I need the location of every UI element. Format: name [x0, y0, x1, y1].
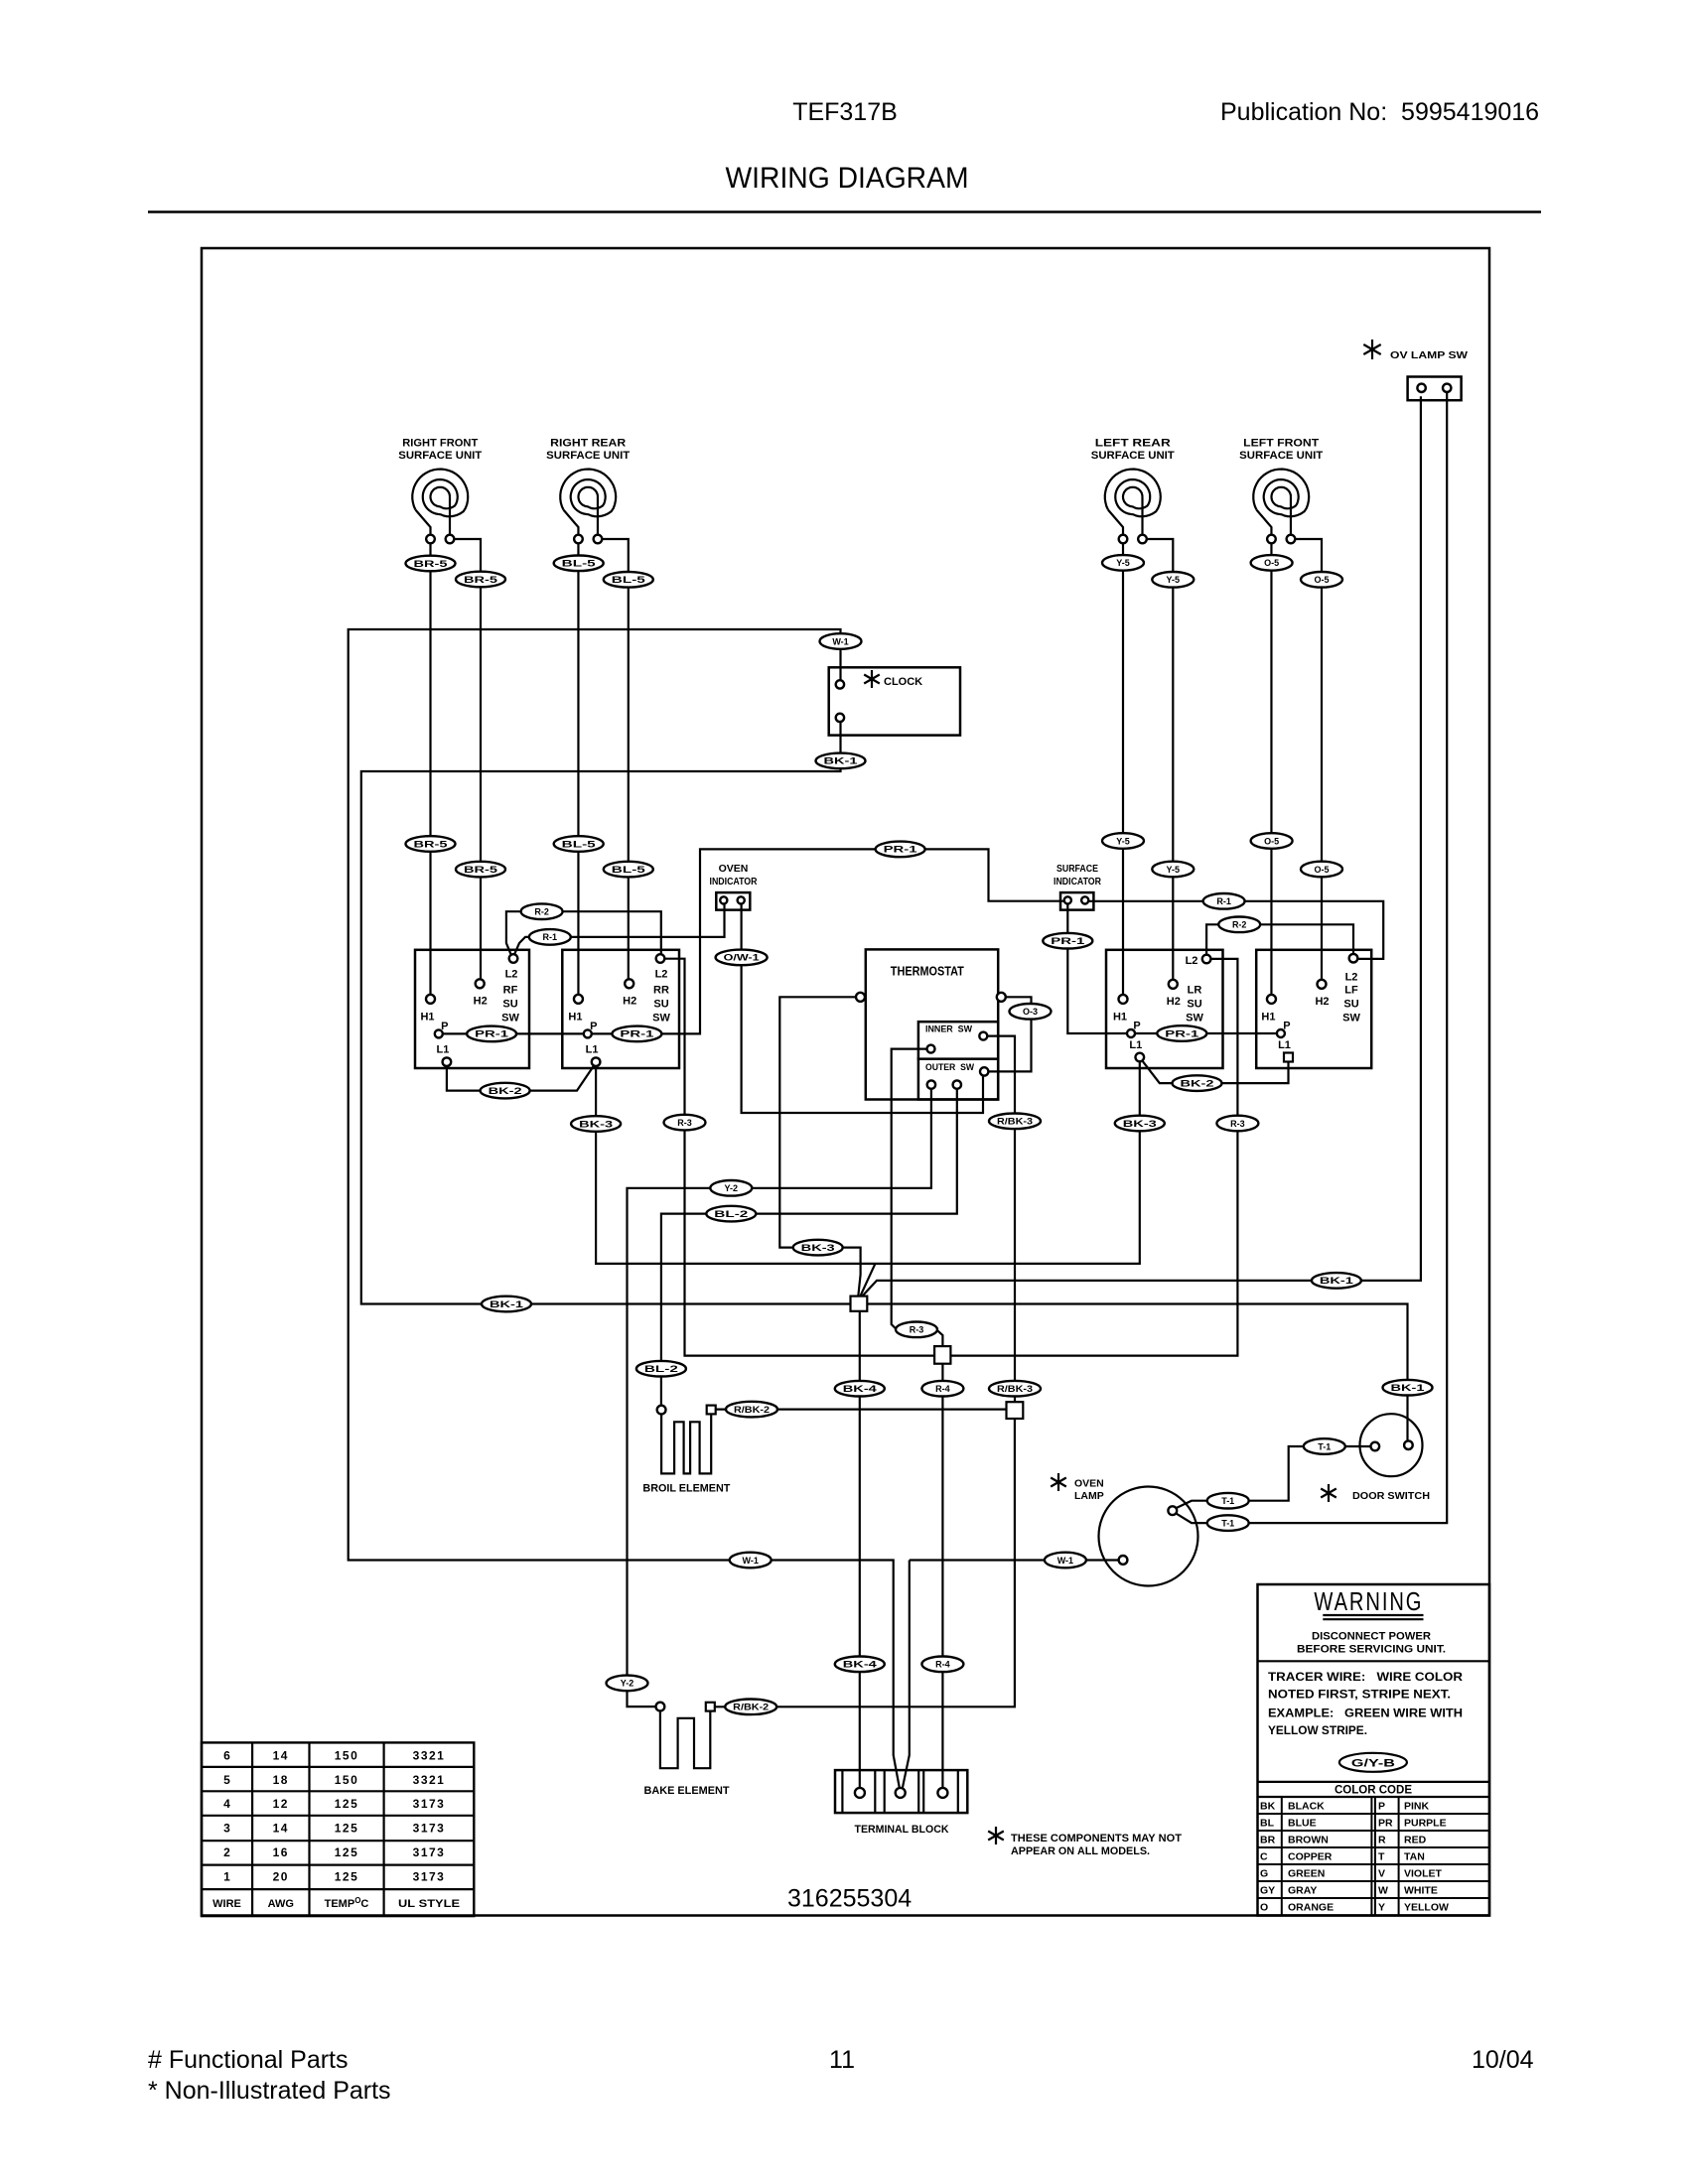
svg-text:LEFT FRONT: LEFT FRONT: [1243, 438, 1319, 450]
wire label O-5: [1251, 555, 1293, 571]
footer date 10/04: [1472, 2046, 1534, 2074]
svg-text:H1: H1: [1261, 1011, 1275, 1023]
svg-text:BL-5: BL-5: [562, 839, 596, 849]
svg-text:BK-1: BK-1: [824, 756, 858, 766]
wire R/BK-3 inner sw to junction: [987, 1036, 1015, 1403]
svg-text:COLOR CODE: COLOR CODE: [1335, 1783, 1412, 1797]
svg-text:2: 2: [223, 1845, 230, 1859]
oven lamp terminals: [1119, 1506, 1178, 1565]
svg-text:COPPER: COPPER: [1288, 1851, 1333, 1863]
wire Y-5 H2 LR: [1147, 539, 1173, 980]
svg-text:YELLOW: YELLOW: [1404, 1902, 1449, 1914]
svg-text:BK-3: BK-3: [801, 1243, 835, 1253]
warning text disconnect: [1297, 1631, 1446, 1656]
wire W-1 lamp feed: [903, 1561, 1119, 1789]
wire label PR-1: [467, 1026, 516, 1042]
bake element: [656, 1703, 715, 1769]
svg-text:GY: GY: [1260, 1885, 1275, 1897]
wire label BK-1: [1383, 1380, 1433, 1396]
note components: [1011, 1833, 1182, 1857]
wire label BK-3: [1115, 1116, 1165, 1132]
footer functional parts: [148, 2046, 349, 2074]
wire label O/W-1: [716, 950, 768, 966]
junction square 3: [1007, 1402, 1024, 1419]
wire PR-1 right bus: [1067, 904, 1276, 1033]
thermostat box: [866, 949, 998, 1099]
svg-text:R-3: R-3: [677, 1118, 692, 1128]
warning underline: [1323, 1615, 1423, 1619]
svg-text:R-1: R-1: [543, 932, 558, 942]
svg-text:T: T: [1378, 1851, 1385, 1863]
svg-text:APPEAR ON ALL MODELS.: APPEAR ON ALL MODELS.: [1011, 1845, 1150, 1857]
wire BK-2 LR L1 to LF L1: [1143, 1061, 1289, 1083]
label OVEN LAMP: [1074, 1478, 1104, 1503]
wire R/BK-2 broil to junction: [715, 1408, 1007, 1410]
junction square 2: [934, 1346, 950, 1364]
svg-text:Y: Y: [1378, 1902, 1385, 1914]
label DOOR SWITCH: [1352, 1491, 1430, 1502]
svg-text:SU: SU: [502, 999, 517, 1011]
asterisk OV LAMP SW: [1363, 340, 1380, 359]
wire T-1 lamp to ov lamp switch: [1177, 392, 1448, 1523]
svg-text:H2: H2: [1315, 996, 1329, 1008]
svg-text:R-4: R-4: [935, 1384, 950, 1394]
svg-text:ORANGE: ORANGE: [1288, 1902, 1334, 1914]
wire T-1 lamp to door switch: [1177, 1446, 1371, 1508]
svg-text:W-1: W-1: [743, 1556, 759, 1566]
wire label O-3: [1010, 1004, 1052, 1020]
svg-text:RIGHT FRONT: RIGHT FRONT: [402, 438, 478, 450]
svg-text:INDICATOR: INDICATOR: [1054, 876, 1101, 887]
svg-text:# Functional Parts: # Functional Parts: [148, 2046, 349, 2074]
svg-text:WIRING DIAGRAM: WIRING DIAGRAM: [726, 162, 969, 195]
svg-text:L1: L1: [1278, 1039, 1291, 1051]
wire O-5 H1 LF: [1270, 543, 1272, 995]
svg-text:RR: RR: [653, 985, 669, 997]
wire BK-3 tap to junction: [860, 1264, 875, 1297]
svg-text:4: 4: [223, 1797, 230, 1811]
svg-text:BK-3: BK-3: [579, 1119, 613, 1129]
wire label T-1: [1304, 1438, 1345, 1454]
wire BK-3 thermostat to junction: [779, 997, 860, 1296]
svg-text:L2: L2: [1186, 955, 1198, 967]
wire label BR-5: [406, 836, 456, 852]
svg-text:NOTED FIRST, STRIPE NEXT.: NOTED FIRST, STRIPE NEXT.: [1268, 1690, 1451, 1702]
svg-text:RIGHT REAR: RIGHT REAR: [550, 438, 626, 450]
svg-text:PR-1: PR-1: [1051, 936, 1084, 946]
wire label PR-1: [612, 1026, 661, 1042]
svg-text:O-3: O-3: [1023, 1007, 1038, 1017]
svg-text:3: 3: [223, 1822, 230, 1836]
svg-text:G: G: [1260, 1868, 1268, 1880]
svg-text:BR-5: BR-5: [464, 575, 497, 585]
surface unit coil LF: [1253, 470, 1309, 544]
svg-text:H2: H2: [1167, 996, 1181, 1008]
svg-text:L2: L2: [505, 969, 518, 981]
wire label BL-5: [554, 556, 604, 572]
header underline: [148, 210, 1541, 212]
wire label BK-4: [835, 1381, 885, 1397]
svg-text:GREEN: GREEN: [1288, 1868, 1325, 1880]
svg-text:R-2: R-2: [534, 907, 549, 917]
svg-text:SURFACE UNIT: SURFACE UNIT: [1239, 450, 1323, 462]
svg-text:DISCONNECT POWER: DISCONNECT POWER: [1312, 1631, 1431, 1643]
wire label O-5: [1301, 572, 1342, 588]
asterisk clock: [864, 670, 880, 688]
svg-text:L2: L2: [1345, 972, 1358, 984]
wire label R-1: [1203, 893, 1245, 909]
svg-text:SU: SU: [1187, 999, 1201, 1011]
svg-text:BR-5: BR-5: [464, 865, 497, 875]
wire label BK-3: [571, 1116, 621, 1132]
wire BK-4 junction to terminal block: [859, 1311, 861, 1788]
svg-text:T-1: T-1: [1221, 1518, 1234, 1528]
svg-text:125: 125: [335, 1822, 359, 1836]
inner sw right terminal: [979, 1032, 987, 1040]
svg-text:14: 14: [273, 1822, 289, 1836]
svg-text:BK-1: BK-1: [1391, 1383, 1425, 1393]
svg-text:SW: SW: [652, 1013, 670, 1024]
wire O-3 thermostat to outer sw: [989, 997, 1032, 1071]
svg-text:BK-4: BK-4: [843, 1384, 877, 1394]
wire R/BK-2 bake to junction: [714, 1419, 1015, 1706]
svg-text:O-5: O-5: [1314, 865, 1329, 875]
wire gauge table data: [223, 1748, 445, 1883]
switch RF SU SW: [415, 950, 529, 1068]
wire R-4 junction to terminal block: [941, 1364, 943, 1788]
svg-text:3173: 3173: [413, 1822, 446, 1836]
wire label BL-2: [706, 1206, 756, 1222]
wire W-1 clock feed: [349, 629, 900, 1788]
svg-text:SURFACE UNIT: SURFACE UNIT: [398, 450, 482, 462]
wire O/W-1 oven indicator to outer sw: [742, 904, 983, 1113]
svg-text:14: 14: [273, 1748, 289, 1762]
surface unit RR label: [546, 438, 630, 463]
wire label G/Y-B example: [1339, 1753, 1407, 1772]
svg-text:SU: SU: [1343, 999, 1358, 1011]
warning text tracer: [1268, 1672, 1464, 1737]
svg-text:Publication No: 5995419016: Publication No: 5995419016: [1220, 98, 1539, 126]
svg-text:Y-5: Y-5: [1167, 575, 1181, 585]
svg-text:BK-2: BK-2: [489, 1086, 522, 1096]
svg-text:12: 12: [273, 1797, 289, 1811]
svg-text:3321: 3321: [413, 1748, 446, 1762]
svg-text:PR: PR: [1378, 1818, 1393, 1830]
junction square 1: [851, 1297, 868, 1311]
svg-text:OV LAMP SW: OV LAMP SW: [1390, 349, 1468, 361]
svg-text:LF: LF: [1344, 985, 1358, 997]
svg-text:UL STYLE: UL STYLE: [398, 1898, 460, 1910]
wire BK-1 clock to door switch: [361, 722, 1408, 1441]
svg-text:BLUE: BLUE: [1288, 1818, 1317, 1830]
svg-text:YELLOW STRIPE.: YELLOW STRIPE.: [1268, 1725, 1367, 1737]
wire BR-5 H1 RF: [429, 543, 431, 994]
svg-text:T-1: T-1: [1318, 1441, 1331, 1451]
wire BK-1 to oven lamp switch: [862, 396, 1421, 1297]
outer sw right terminal: [980, 1067, 988, 1075]
svg-text:TERMINAL BLOCK: TERMINAL BLOCK: [855, 1824, 949, 1836]
svg-text:1: 1: [223, 1870, 230, 1884]
svg-text:Y-2: Y-2: [621, 1679, 634, 1689]
svg-text:BK-1: BK-1: [1320, 1276, 1353, 1286]
svg-text:5: 5: [223, 1773, 230, 1787]
svg-text:Y-5: Y-5: [1116, 558, 1130, 568]
inner sw box: [918, 1022, 998, 1059]
svg-text:THERMOSTAT: THERMOSTAT: [891, 964, 964, 979]
footer page 11: [829, 2046, 855, 2074]
switch RR SU SW: [562, 950, 679, 1068]
svg-text:BK: BK: [1260, 1801, 1276, 1813]
svg-text:H1: H1: [568, 1011, 582, 1023]
svg-text:H2: H2: [623, 995, 636, 1007]
surface unit coil RR: [560, 470, 616, 544]
svg-text:TRACER WIRE: WIRE COLOR: TRACER WIRE: WIRE COLOR: [1268, 1672, 1464, 1684]
wire label Y-2: [710, 1180, 752, 1196]
asterisk door switch: [1321, 1484, 1336, 1502]
label TERMINAL BLOCK: [855, 1824, 949, 1836]
svg-text:C: C: [1260, 1851, 1268, 1863]
svg-text:OUTER SW: OUTER SW: [925, 1062, 974, 1073]
wire label O-5: [1251, 833, 1293, 849]
wire label BK-1: [816, 753, 866, 769]
wire gauge table: [202, 1742, 474, 1916]
color code table text: [1260, 1801, 1449, 1914]
wire label R-1: [529, 929, 571, 945]
oven indicator box: [716, 892, 750, 910]
wire label W-1: [1045, 1553, 1086, 1569]
svg-text:20: 20: [273, 1870, 289, 1884]
wire label W-1: [730, 1553, 772, 1569]
wire Y-5 H1 LR: [1122, 543, 1124, 995]
surface indicator labels: [1054, 863, 1101, 887]
svg-text:TEF317B: TEF317B: [792, 98, 898, 126]
svg-text:G/Y-B: G/Y-B: [1351, 1757, 1395, 1769]
switch LF SU SW: [1256, 950, 1371, 1068]
svg-text:VIOLET: VIOLET: [1404, 1868, 1443, 1880]
wire label BL-5: [604, 862, 653, 878]
svg-text:BL: BL: [1260, 1818, 1275, 1830]
svg-text:SURFACE UNIT: SURFACE UNIT: [1091, 450, 1175, 462]
surface unit LR label: [1091, 438, 1175, 463]
wire label R-3: [896, 1322, 937, 1338]
label THERMOSTAT: [891, 964, 964, 979]
wire label BK-3: [793, 1240, 843, 1256]
svg-text:L1: L1: [586, 1044, 599, 1056]
label CLOCK: [884, 676, 922, 688]
surface unit coil LR: [1105, 470, 1161, 544]
svg-text:PR-1: PR-1: [475, 1029, 508, 1039]
wire label Y-2: [607, 1676, 648, 1692]
svg-text:SW: SW: [1342, 1013, 1360, 1024]
svg-text:PR-1: PR-1: [1165, 1028, 1198, 1038]
thermostat left terminal: [856, 993, 865, 1002]
svg-text:BK-3: BK-3: [1123, 1119, 1157, 1129]
svg-text:P: P: [1133, 1021, 1140, 1032]
inner sw left terminal: [927, 1045, 935, 1053]
svg-text:H1: H1: [1113, 1011, 1127, 1023]
oven indicator labels: [710, 863, 758, 887]
svg-text:125: 125: [335, 1870, 359, 1884]
surface indicator box: [1060, 892, 1093, 910]
svg-text:R/BK-3: R/BK-3: [997, 1384, 1033, 1394]
svg-text:BK-2: BK-2: [1181, 1078, 1214, 1088]
wire label BK-1: [1312, 1273, 1361, 1289]
svg-text:BROIL ELEMENT: BROIL ELEMENT: [642, 1483, 730, 1495]
wire label R-3: [1216, 1116, 1258, 1132]
wire BL-5 H1 RR: [577, 543, 579, 994]
svg-text:BK-4: BK-4: [843, 1660, 877, 1670]
label COLOR CODE: [1335, 1783, 1412, 1797]
wire label W-1: [820, 633, 862, 649]
svg-text:16: 16: [273, 1845, 289, 1859]
svg-text:CLOCK: CLOCK: [884, 676, 922, 688]
svg-text:150: 150: [335, 1748, 359, 1762]
svg-text:O: O: [1260, 1902, 1268, 1914]
svg-text:WIRE: WIRE: [212, 1898, 241, 1910]
wire label BL-5: [554, 836, 604, 852]
wire BK-2 RF L1 to RR L1: [447, 1065, 594, 1090]
wire label BK-2: [1173, 1075, 1222, 1091]
wire BL-5 H2 RR: [602, 539, 628, 979]
svg-text:10/04: 10/04: [1472, 2046, 1534, 2074]
svg-text:BROWN: BROWN: [1288, 1835, 1329, 1846]
wire label BK-4: [835, 1657, 885, 1673]
svg-text:3173: 3173: [413, 1870, 446, 1884]
svg-text:WARNING: WARNING: [1314, 1586, 1423, 1616]
wire label R-2: [1218, 917, 1260, 933]
svg-text:TAN: TAN: [1404, 1851, 1425, 1863]
svg-text:R: R: [1378, 1835, 1386, 1846]
thermostat right terminal: [997, 993, 1006, 1002]
wire label R-3: [664, 1115, 706, 1131]
svg-text:L1: L1: [436, 1044, 449, 1056]
svg-text:O-5: O-5: [1264, 558, 1279, 568]
svg-text:R-3: R-3: [910, 1325, 924, 1335]
svg-text:SU: SU: [653, 999, 668, 1011]
outer sw box: [918, 1059, 998, 1100]
svg-text:O/W-1: O/W-1: [724, 953, 760, 963]
wire BK-3 switch L1 bus: [596, 1061, 1140, 1264]
svg-text:BAKE ELEMENT: BAKE ELEMENT: [644, 1785, 730, 1797]
svg-text:T-1: T-1: [1221, 1496, 1234, 1506]
wire label T-1: [1207, 1493, 1249, 1509]
svg-text:BR: BR: [1260, 1835, 1276, 1846]
wire BR-5 H2 RF: [454, 539, 481, 979]
svg-text:H2: H2: [474, 995, 488, 1007]
svg-text:18: 18: [273, 1773, 289, 1787]
svg-text:INNER SW: INNER SW: [925, 1024, 972, 1035]
svg-text:125: 125: [335, 1797, 359, 1811]
wire label BK-1: [482, 1297, 531, 1312]
svg-text:Y-2: Y-2: [725, 1183, 739, 1193]
clock box: [829, 667, 960, 735]
wire gauge table header: [212, 1896, 460, 1910]
svg-text:INDICATOR: INDICATOR: [710, 876, 758, 887]
wire BL-2 outer sw to broil element: [661, 1089, 957, 1406]
wire label PR-1: [1043, 933, 1092, 949]
svg-text:OVEN: OVEN: [1074, 1478, 1104, 1490]
svg-text:P: P: [590, 1021, 597, 1032]
wire label R-4: [921, 1657, 963, 1673]
svg-text:O-5: O-5: [1314, 575, 1329, 585]
part number 316255304: [787, 1885, 912, 1913]
svg-text:EXAMPLE: GREEN WIRE WITH: EXAMPLE: GREEN WIRE WITH: [1268, 1708, 1463, 1720]
wire label R-2: [521, 903, 563, 919]
wire label R/BK-2: [725, 1700, 776, 1715]
wire label BK-2: [481, 1083, 530, 1099]
svg-text:LAMP: LAMP: [1074, 1490, 1104, 1502]
svg-text:V: V: [1378, 1868, 1385, 1880]
svg-text:DOOR SWITCH: DOOR SWITCH: [1352, 1491, 1430, 1502]
wire label R/BK-2: [726, 1402, 777, 1418]
footer non-illustrated parts: [148, 2077, 391, 2105]
label BAKE ELEMENT: [644, 1785, 730, 1797]
oven lamp circle: [1099, 1487, 1198, 1586]
svg-text:TEMPOC: TEMPOC: [325, 1896, 369, 1910]
label INNER SW: [925, 1024, 972, 1035]
wire PR-1 left bus: [439, 849, 1063, 1033]
svg-text:PR-1: PR-1: [884, 845, 917, 855]
svg-text:W-1: W-1: [832, 636, 848, 646]
svg-text:W-1: W-1: [1057, 1556, 1073, 1566]
outer sw bottom terminals: [927, 1080, 961, 1088]
svg-text:SURFACE: SURFACE: [1056, 863, 1098, 875]
svg-text:BL-5: BL-5: [562, 559, 596, 569]
svg-text:BK-1: BK-1: [490, 1299, 523, 1309]
svg-text:SW: SW: [501, 1013, 519, 1024]
heading WIRING DIAGRAM: [726, 162, 969, 195]
surface unit LF label: [1239, 438, 1323, 463]
svg-text:150: 150: [335, 1773, 359, 1787]
asterisk oven lamp: [1051, 1473, 1066, 1491]
svg-text:3173: 3173: [413, 1797, 446, 1811]
wire label BL-2: [636, 1361, 686, 1377]
svg-text:R-4: R-4: [935, 1660, 950, 1670]
svg-text:P: P: [1378, 1801, 1385, 1813]
svg-text:PURPLE: PURPLE: [1404, 1818, 1447, 1830]
svg-text:L1: L1: [1129, 1039, 1142, 1051]
svg-text:P: P: [1283, 1021, 1290, 1032]
terminal block: [835, 1770, 967, 1813]
door switch circle: [1360, 1414, 1423, 1476]
wire R-1 RF L2 to oven indicator: [514, 904, 724, 954]
wire R-2 RF L2 to RR L2: [506, 911, 661, 954]
title TEF317B: [792, 98, 898, 126]
svg-text:BR-5: BR-5: [414, 839, 448, 849]
wire label O-5: [1301, 862, 1342, 878]
page border: [202, 248, 1489, 1916]
svg-text:BR-5: BR-5: [414, 559, 448, 569]
svg-text:L2: L2: [655, 969, 668, 981]
wire Y-2 outer sw to bake element: [628, 1089, 931, 1706]
wire label BL-5: [604, 572, 653, 588]
svg-text:R-3: R-3: [1230, 1119, 1245, 1129]
svg-text:R-1: R-1: [1216, 896, 1231, 906]
svg-text:PR-1: PR-1: [620, 1029, 653, 1039]
svg-text:3321: 3321: [413, 1773, 446, 1787]
warning box: [1258, 1584, 1490, 1916]
svg-text:BEFORE SERVICING UNIT.: BEFORE SERVICING UNIT.: [1297, 1644, 1446, 1656]
svg-text:PINK: PINK: [1404, 1801, 1430, 1813]
svg-text:AWG: AWG: [268, 1898, 294, 1910]
svg-text:R/BK-2: R/BK-2: [733, 1703, 769, 1712]
svg-text:11: 11: [829, 2046, 855, 2074]
wire O-5 H2 LF: [1295, 539, 1322, 980]
svg-text:THESE COMPONENTS MAY NOT: THESE COMPONENTS MAY NOT: [1011, 1833, 1182, 1844]
wire R-1 surface indicator to LF L2: [1089, 901, 1383, 959]
asterisk components note: [988, 1827, 1004, 1844]
wire label BR-5: [406, 556, 456, 572]
